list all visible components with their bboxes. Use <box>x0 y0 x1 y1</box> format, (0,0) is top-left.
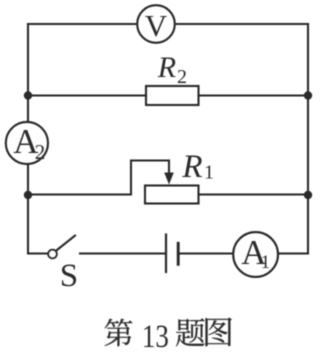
svg-text:13: 13 <box>142 319 169 355</box>
svg-text:2: 2 <box>177 66 187 88</box>
svg-text:V: V <box>145 8 168 43</box>
svg-text:1: 1 <box>261 252 271 273</box>
svg-text:R: R <box>181 149 202 185</box>
svg-text:R: R <box>157 51 176 84</box>
svg-text:S: S <box>60 258 78 294</box>
svg-text:2: 2 <box>35 140 46 164</box>
svg-text:1: 1 <box>204 162 214 184</box>
